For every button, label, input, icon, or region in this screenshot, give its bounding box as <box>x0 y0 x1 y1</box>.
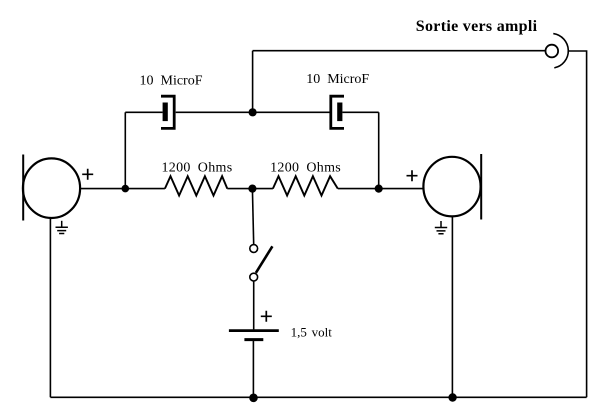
svg-text:10 MicroF: 10 MicroF <box>306 72 369 87</box>
svg-text:1200 Ohms: 1200 Ohms <box>270 161 341 176</box>
svg-text:10 MicroF: 10 MicroF <box>140 74 203 89</box>
svg-text:1,5 volt: 1,5 volt <box>291 325 333 340</box>
svg-text:Sortie vers ampli: Sortie vers ampli <box>416 18 538 35</box>
svg-text:1200 Ohms: 1200 Ohms <box>162 160 233 175</box>
